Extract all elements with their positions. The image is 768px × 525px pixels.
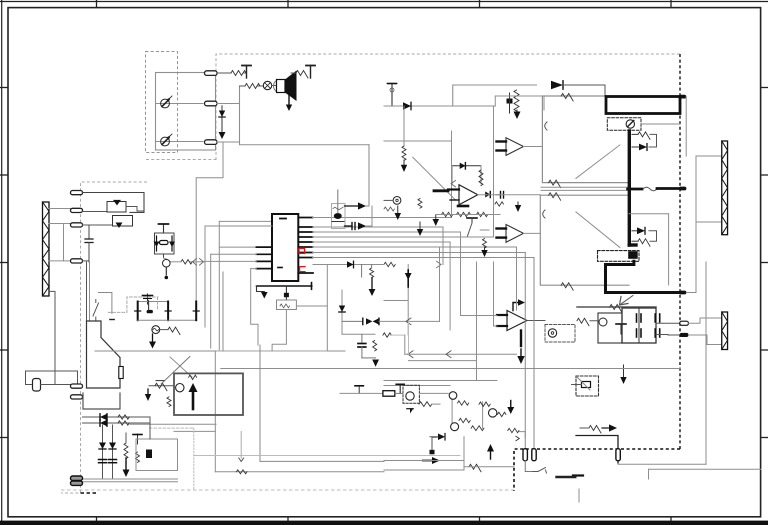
capacitor T2	[620, 324, 622, 334]
wire long vertical	[705, 262, 707, 464]
capacitor C52	[137, 434, 139, 444]
arrow down	[147, 389, 149, 395]
resistor R16	[383, 333, 391, 337]
dashed box regulator	[576, 376, 599, 396]
diode D202	[551, 81, 563, 89]
arrow down	[397, 206, 399, 214]
resistor box	[277, 300, 297, 310]
capacitor C3	[285, 286, 287, 293]
wire vertical	[240, 431, 242, 458]
bus stub thick	[657, 187, 680, 190]
wire	[461, 315, 498, 317]
wire	[217, 141, 240, 143]
wire	[641, 123, 680, 125]
wire	[291, 72, 296, 74]
pin 3	[298, 231, 312, 233]
resistor R46	[469, 464, 481, 472]
resistor R30	[610, 305, 622, 313]
wire	[464, 466, 514, 468]
junction arrow	[446, 351, 451, 358]
wire from bar bottom	[49, 291, 71, 384]
connector pill vertical	[523, 449, 527, 461]
diagonal adjust line	[413, 157, 456, 200]
wire	[563, 85, 605, 95]
mic unit box	[156, 73, 216, 151]
wire vertical	[210, 254, 212, 348]
arrow elbow	[513, 303, 520, 311]
ground arrow	[261, 292, 268, 299]
speaker SP1	[274, 80, 287, 93]
resistor R103	[296, 71, 308, 79]
wire	[384, 140, 452, 142]
wire vertical	[404, 335, 406, 354]
input bar	[497, 227, 507, 229]
connector pin CN1-3	[205, 140, 218, 145]
wire	[49, 223, 71, 225]
resistor R60	[384, 262, 395, 266]
connector pin CN2-2	[71, 208, 83, 212]
wire	[174, 430, 215, 432]
resistor R24	[632, 133, 638, 135]
psu block outline	[577, 306, 656, 308]
resistor R12 vertical	[483, 239, 487, 249]
wire	[205, 225, 272, 227]
capacitor C31	[659, 314, 661, 322]
op-amp U4	[506, 225, 524, 243]
oscillator box right of IC	[332, 204, 346, 229]
arrow down	[517, 202, 519, 205]
wire	[49, 208, 71, 210]
wire	[99, 293, 112, 314]
connector stub dark	[680, 333, 689, 337]
switch contact	[156, 380, 164, 382]
resistor R101	[231, 71, 246, 76]
resistor R23	[561, 283, 573, 291]
capacitor C4	[345, 225, 353, 227]
capacitor C32	[640, 329, 642, 337]
wire	[95, 350, 345, 352]
wire	[368, 145, 370, 206]
connector pin CN1-2	[205, 101, 218, 106]
wire elbow	[251, 268, 257, 270]
junction arrow	[406, 318, 411, 325]
connector stub	[679, 95, 686, 99]
resistor R41 vertical	[167, 397, 171, 407]
resistor R22	[549, 193, 561, 201]
cursor arrow	[621, 296, 633, 305]
wire vertical	[451, 400, 453, 424]
resistor R7	[384, 207, 394, 211]
wire	[384, 385, 450, 387]
transistor Q3	[163, 259, 171, 267]
connector pill vertical	[616, 449, 620, 461]
resistor R11	[477, 212, 488, 216]
wire	[590, 320, 599, 322]
diode D43 down	[407, 270, 409, 287]
wire	[83, 260, 90, 262]
capacitor tick	[110, 319, 114, 321]
diode D20	[639, 144, 647, 151]
wire vertical	[326, 265, 328, 351]
capacitor C7	[361, 334, 363, 343]
wire	[160, 329, 168, 331]
wire	[366, 206, 372, 226]
wire	[156, 141, 204, 143]
wire dotted vertical	[193, 428, 195, 489]
wire	[519, 432, 525, 438]
wire	[436, 214, 500, 216]
connector pill vertical	[532, 449, 536, 461]
resistor R47	[237, 470, 247, 474]
wire vertical	[204, 226, 206, 327]
wire diag	[170, 357, 192, 377]
wire dashed left boundary	[146, 159, 216, 161]
input bar	[448, 188, 459, 190]
input bar	[497, 236, 507, 238]
wire	[83, 193, 145, 213]
wire vertical	[476, 262, 478, 381]
diode D21	[637, 227, 645, 234]
transistor dashed box	[403, 385, 419, 403]
wire vertical	[214, 351, 216, 472]
ground arrow	[288, 94, 290, 106]
connector pin CN2-4	[71, 259, 83, 263]
wire	[296, 305, 327, 307]
pin left c	[256, 260, 272, 262]
pin 6	[298, 246, 312, 248]
wire	[215, 471, 384, 473]
wire	[26, 371, 34, 385]
wire black dashed right boundary	[679, 54, 681, 449]
pin 8	[298, 257, 312, 259]
resistor R201	[514, 90, 519, 111]
connector pin dark	[71, 476, 83, 480]
wire vertical	[463, 437, 465, 470]
wire	[313, 231, 461, 233]
resistor R8 vertical	[418, 199, 422, 209]
wire	[257, 286, 265, 292]
pin 1	[298, 217, 312, 219]
wire vertical	[493, 262, 495, 326]
resistor R49	[498, 412, 506, 416]
wire	[541, 189, 628, 191]
wire	[409, 360, 477, 362]
wire vertical	[533, 258, 535, 449]
wire vertical	[149, 417, 151, 439]
wire	[83, 422, 151, 424]
wire vertical	[439, 247, 441, 321]
resistor R32 block	[582, 382, 591, 388]
wire	[419, 392, 448, 394]
arrow down	[419, 222, 421, 229]
wire	[313, 236, 494, 238]
transistor Q14	[451, 423, 459, 431]
wire	[313, 257, 535, 259]
wire	[648, 469, 650, 479]
wire	[1, 0, 3, 525]
wire dashed second boundary	[61, 182, 147, 493]
wire	[156, 103, 204, 105]
wire	[480, 229, 489, 231]
transistor Q13	[449, 392, 457, 400]
pin 7	[298, 252, 312, 254]
wire	[272, 310, 286, 351]
diode arrow	[602, 427, 610, 429]
wire	[384, 105, 495, 107]
input bar	[497, 314, 507, 316]
resistor R4	[333, 207, 343, 209]
relay box RY1	[174, 373, 243, 415]
capacitor C40	[430, 450, 435, 455]
capacitor C50	[99, 459, 107, 461]
wire	[313, 217, 452, 219]
arrow down	[403, 160, 405, 165]
capacitor C1	[88, 226, 90, 239]
wire	[527, 320, 545, 322]
capacitor C6	[496, 194, 500, 196]
resistor R14 vertical	[370, 268, 374, 278]
wire	[313, 264, 384, 266]
input bar	[497, 325, 507, 327]
wire	[240, 85, 246, 87]
wire	[362, 357, 376, 359]
resistor R31	[577, 318, 589, 326]
wire	[211, 253, 257, 255]
wire	[618, 463, 706, 465]
squiggle	[643, 187, 657, 191]
bus stub thick	[628, 188, 642, 191]
resistor R102	[245, 84, 260, 89]
power rect thick	[606, 97, 680, 114]
wire	[379, 320, 440, 322]
connector pin dark	[147, 310, 153, 313]
wire	[221, 368, 680, 370]
connector stub	[679, 291, 686, 295]
wire vertical pair	[86, 262, 88, 321]
wire	[83, 211, 108, 213]
connector CN6 hatched	[722, 312, 728, 350]
pin bar	[311, 283, 313, 290]
arrow down	[510, 401, 512, 408]
wire	[340, 392, 383, 394]
wire	[495, 95, 542, 97]
transistor Q1	[107, 202, 126, 213]
wire vertical	[102, 425, 104, 479]
wire vertical	[516, 247, 518, 310]
wire	[494, 325, 498, 327]
diode D42	[407, 409, 413, 414]
wire dashed	[157, 297, 159, 309]
wire bottom	[138, 319, 197, 321]
pin 2	[298, 226, 312, 228]
wire	[205, 260, 256, 262]
wire	[366, 205, 369, 207]
relay coil	[626, 120, 634, 128]
op-amp U5	[507, 311, 527, 331]
wire	[460, 232, 462, 316]
resistor R17 block	[383, 391, 395, 397]
wire	[0, 521, 768, 525]
amplifier block CH1	[542, 96, 629, 183]
wire	[442, 227, 444, 265]
wire	[689, 335, 722, 345]
wire dashed top boundary	[216, 54, 680, 160]
photocoupler PC1	[548, 329, 556, 337]
wire	[384, 380, 497, 382]
switch contact	[93, 303, 99, 316]
arrow down	[221, 131, 223, 134]
diode D201	[403, 102, 411, 109]
wire	[83, 224, 113, 226]
wire open box	[453, 85, 537, 106]
resistor R5 vertical	[402, 146, 406, 160]
resistor R51	[118, 421, 129, 425]
wire	[696, 221, 722, 223]
power supply block T-cap	[147, 294, 149, 304]
diode pair D10	[362, 318, 364, 324]
relay contact block	[628, 251, 638, 259]
wire opamp2 out	[478, 194, 541, 196]
diode D8	[347, 261, 354, 268]
antenna T1	[246, 66, 248, 79]
switch S2	[533, 471, 538, 473]
IC bottom dash	[278, 267, 282, 269]
resistor R44	[459, 418, 470, 422]
capacitor bars	[458, 205, 468, 208]
microphone MIC2	[161, 137, 170, 146]
wire	[240, 86, 370, 145]
wire vertical	[482, 402, 484, 428]
diode D1	[156, 236, 158, 251]
wire	[219, 220, 272, 222]
wire vertical	[341, 290, 343, 334]
node highlight red C	[300, 267, 305, 272]
wire bus below IC	[257, 285, 312, 287]
bus elbow	[629, 243, 636, 246]
plug P1	[33, 379, 41, 392]
wire dashed bottom boundary	[61, 489, 514, 491]
junction arrow	[451, 181, 456, 187]
wire	[164, 258, 167, 259]
diode small	[516, 436, 519, 441]
wire	[384, 300, 408, 302]
wire	[686, 156, 721, 293]
wire	[126, 207, 144, 212]
wire vertical	[222, 272, 224, 351]
resistor R43	[479, 402, 490, 406]
input bar	[497, 140, 507, 142]
diode D9 vertical	[339, 306, 345, 313]
resistor R6 vertical	[479, 170, 483, 186]
wire	[313, 252, 526, 254]
transistor Q10	[599, 318, 607, 326]
resistor R48	[419, 402, 432, 407]
fuse F1	[119, 367, 123, 379]
switch diagonal	[161, 357, 190, 384]
input bar	[497, 149, 507, 151]
transistor Q2	[113, 216, 133, 227]
wire vertical	[218, 221, 220, 351]
arrow down	[371, 278, 373, 289]
resistor R33	[589, 426, 601, 434]
sub box	[136, 439, 178, 471]
ground arrow	[152, 334, 154, 343]
wire	[384, 460, 464, 462]
transistor block	[146, 450, 152, 459]
resistor R4A	[471, 426, 484, 431]
diode D2	[171, 236, 173, 251]
wire	[163, 254, 165, 258]
transistor Q11	[176, 384, 184, 392]
resistor R10	[457, 212, 471, 216]
connector pin CN2-3	[71, 223, 83, 227]
wire	[524, 146, 543, 148]
capacitor paren CH2	[543, 210, 545, 218]
arrow up big	[192, 390, 195, 409]
resistor R15 vertical	[373, 341, 377, 351]
wire	[656, 334, 680, 337]
wire	[194, 455, 460, 457]
wire	[649, 468, 762, 470]
diode D4	[167, 302, 169, 321]
arrow down	[435, 215, 437, 219]
diode D101	[221, 106, 223, 131]
wire long vertical	[407, 265, 409, 336]
arrow down small	[239, 458, 244, 462]
capacitor T4	[399, 384, 401, 393]
wire vertical	[259, 345, 261, 461]
wire	[403, 106, 405, 146]
capacitor C51	[109, 459, 117, 461]
capacitor C201	[391, 84, 393, 107]
resistor R50	[118, 415, 129, 419]
wire	[313, 241, 451, 243]
thick bar mark	[557, 476, 576, 478]
wire vertical	[451, 131, 453, 214]
diode D40	[438, 434, 445, 441]
resistor R9	[442, 212, 453, 216]
wire	[313, 246, 517, 248]
pin 4	[298, 236, 312, 238]
wire	[83, 478, 178, 480]
diode pair out	[485, 192, 490, 198]
capacitor C33	[659, 329, 661, 337]
connector stub	[679, 187, 686, 191]
antenna T2	[310, 66, 312, 79]
wire	[41, 384, 71, 386]
transistor Q4	[393, 197, 401, 205]
arrow down	[520, 349, 522, 356]
wire dashed stub bottom-left	[81, 492, 98, 494]
wire	[149, 385, 174, 387]
arrow up	[490, 450, 492, 459]
wire	[63, 225, 65, 261]
resistor R53 vertical	[136, 452, 140, 462]
resistor R18	[280, 304, 290, 308]
wire black	[576, 436, 618, 464]
wire	[689, 318, 722, 323]
wire	[244, 72, 247, 74]
wire	[408, 321, 410, 354]
bridge block	[622, 308, 656, 343]
op-amp U2	[459, 185, 478, 205]
wire vertical	[668, 214, 670, 285]
regulator sub box	[598, 313, 622, 343]
connector CN2 hatched	[43, 202, 50, 296]
wire	[216, 350, 327, 352]
wire	[494, 96, 496, 106]
wire dashed	[150, 427, 194, 429]
